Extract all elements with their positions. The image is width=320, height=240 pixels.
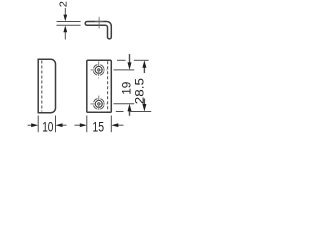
hidden bend line in side view <box>41 61 43 112</box>
svg-text:15: 15 <box>92 119 104 134</box>
svg-text:2: 2 <box>58 1 69 8</box>
dimension 19 <box>114 54 135 116</box>
profile view L-bracket (top) <box>85 22 111 39</box>
side view (bottom left) <box>38 59 55 113</box>
dimension 2 (thickness) <box>57 8 81 40</box>
dimension 28.5 <box>116 60 151 111</box>
hole centerline cross on profile <box>98 17 100 29</box>
svg-text:28.5: 28.5 <box>133 78 147 105</box>
top hole <box>91 62 108 79</box>
svg-text:10: 10 <box>42 119 53 134</box>
hidden bend line in front view <box>107 61 109 111</box>
dimension 15 <box>75 116 124 133</box>
bottom hole <box>91 96 108 113</box>
front view plate <box>87 60 112 112</box>
dimension 10 <box>28 116 67 133</box>
